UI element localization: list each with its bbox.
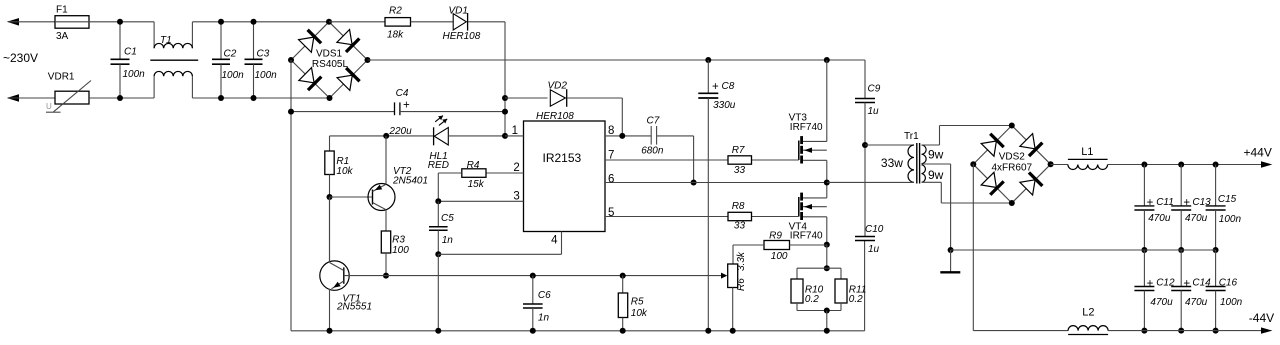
svg-text:+44V: +44V — [1244, 145, 1272, 159]
svg-text:C8: C8 — [722, 81, 735, 92]
svg-text:C6: C6 — [538, 290, 551, 301]
svg-text:C7: C7 — [647, 116, 660, 127]
svg-text:IRF740: IRF740 — [790, 122, 823, 133]
svg-text:33w: 33w — [881, 156, 903, 170]
svg-text:9w: 9w — [928, 148, 944, 162]
svg-text:4xFR607: 4xFR607 — [992, 162, 1033, 173]
svg-text:RED: RED — [428, 160, 449, 171]
svg-text:8: 8 — [608, 125, 614, 137]
svg-text:0.2: 0.2 — [849, 294, 863, 305]
svg-text:0.2: 0.2 — [805, 294, 819, 305]
svg-text:VD2: VD2 — [548, 81, 568, 92]
svg-text:470u: 470u — [1150, 297, 1173, 308]
svg-text:U: U — [46, 102, 52, 111]
svg-text:1: 1 — [512, 125, 518, 137]
svg-text:C11: C11 — [1156, 197, 1174, 208]
svg-text:2: 2 — [513, 162, 519, 174]
svg-text:3: 3 — [513, 191, 519, 203]
svg-text:+: + — [1147, 197, 1154, 209]
svg-text:100n: 100n — [222, 70, 245, 81]
svg-text:1n: 1n — [442, 235, 454, 246]
svg-text:~230V: ~230V — [3, 51, 38, 65]
svg-text:C4: C4 — [396, 88, 409, 99]
svg-text:R5: R5 — [631, 296, 644, 307]
svg-text:470u: 470u — [1148, 213, 1171, 224]
svg-text:+: + — [1183, 278, 1190, 290]
svg-text:C10: C10 — [865, 224, 884, 235]
svg-text:15k: 15k — [468, 179, 485, 190]
svg-text:R9: R9 — [769, 231, 782, 242]
svg-text:100n: 100n — [255, 70, 278, 81]
svg-text:L2: L2 — [1082, 306, 1094, 318]
svg-text:100: 100 — [392, 245, 409, 256]
svg-text:IR2153: IR2153 — [543, 151, 582, 165]
svg-text:IRF740: IRF740 — [790, 231, 823, 242]
svg-text:VDS2: VDS2 — [999, 152, 1026, 163]
svg-text:33: 33 — [734, 165, 746, 176]
svg-text:1u: 1u — [868, 106, 880, 117]
svg-text:+: + — [1183, 197, 1190, 209]
svg-text:R7: R7 — [732, 145, 745, 156]
svg-text:R2: R2 — [389, 6, 402, 17]
svg-text:C15: C15 — [1218, 194, 1237, 205]
svg-text:R6: R6 — [736, 278, 747, 291]
svg-text:RS405L: RS405L — [312, 59, 349, 70]
svg-text:1u: 1u — [868, 244, 880, 255]
svg-text:C9: C9 — [868, 84, 881, 95]
svg-text:VD1: VD1 — [449, 6, 468, 17]
svg-text:18k: 18k — [387, 30, 404, 41]
svg-text:5: 5 — [608, 207, 614, 219]
svg-text:C2: C2 — [224, 48, 237, 59]
svg-text:+: + — [403, 100, 410, 112]
svg-text:680n: 680n — [641, 145, 664, 156]
svg-text:470u: 470u — [1185, 213, 1208, 224]
svg-text:C5: C5 — [441, 213, 454, 224]
svg-text:470u: 470u — [1185, 297, 1208, 308]
svg-text:3.3k: 3.3k — [736, 251, 747, 271]
svg-text:F1: F1 — [56, 4, 68, 15]
svg-text:R4: R4 — [467, 160, 480, 171]
svg-text:9w: 9w — [928, 168, 944, 182]
svg-text:C16: C16 — [1219, 278, 1238, 289]
svg-text:C3: C3 — [257, 48, 270, 59]
svg-text:100n: 100n — [1219, 214, 1242, 225]
svg-text:4: 4 — [551, 235, 558, 247]
svg-text:+: + — [712, 81, 719, 93]
svg-text:Tr1: Tr1 — [904, 131, 919, 142]
svg-text:HER108: HER108 — [536, 111, 574, 122]
svg-text:100n: 100n — [1220, 297, 1243, 308]
svg-text:+: + — [1147, 278, 1154, 290]
svg-text:33: 33 — [734, 221, 746, 232]
svg-text:L1: L1 — [1081, 146, 1093, 158]
svg-text:VDS1: VDS1 — [316, 48, 343, 59]
svg-text:7: 7 — [608, 150, 614, 162]
svg-text:1n: 1n — [538, 313, 550, 324]
svg-text:-44V: -44V — [1249, 311, 1274, 325]
svg-text:2N5551: 2N5551 — [336, 302, 372, 313]
svg-text:330u: 330u — [713, 100, 736, 111]
svg-text:VDR1: VDR1 — [48, 72, 75, 83]
svg-text:HER108: HER108 — [443, 31, 481, 42]
svg-text:10k: 10k — [336, 166, 353, 177]
svg-text:C1: C1 — [124, 47, 137, 58]
svg-text:T1: T1 — [160, 35, 172, 46]
svg-text:3A: 3A — [56, 31, 69, 42]
svg-text:6: 6 — [608, 173, 614, 185]
svg-text:2N5401: 2N5401 — [392, 175, 428, 186]
svg-text:100n: 100n — [123, 69, 146, 80]
svg-text:100: 100 — [771, 251, 788, 262]
svg-text:R8: R8 — [732, 201, 745, 212]
svg-text:10k: 10k — [631, 308, 648, 319]
